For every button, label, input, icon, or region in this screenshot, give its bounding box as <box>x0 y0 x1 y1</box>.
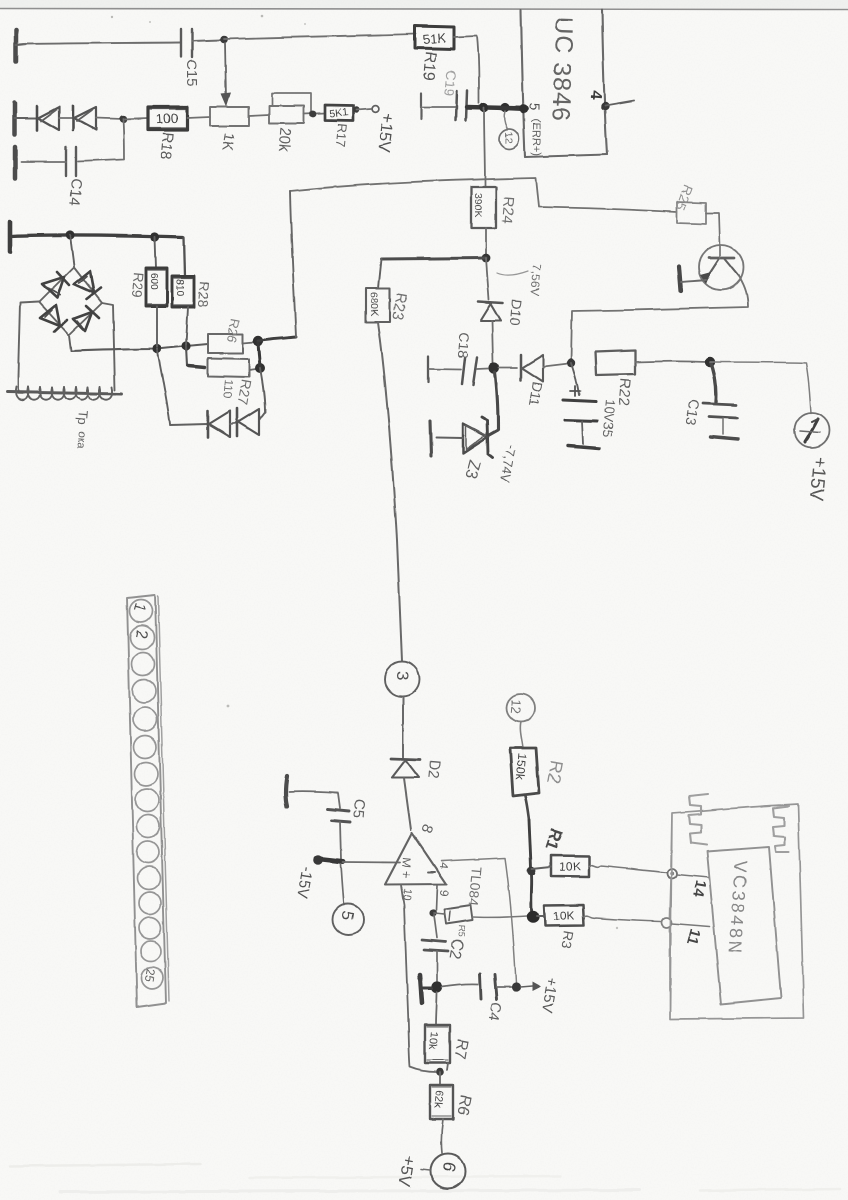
wire node to terminal 1 <box>710 362 811 413</box>
pencil specks top <box>111 15 618 930</box>
op-amp U1 triangle <box>385 833 447 885</box>
wire top bus to R29 <box>155 237 156 268</box>
transistor Q1 <box>699 245 744 290</box>
label 10V35 <box>600 399 618 438</box>
minus tick pin9 <box>428 871 435 873</box>
wire D2 to op-amp <box>404 778 411 830</box>
node junction R27 right <box>255 343 265 373</box>
node junction D10 top <box>482 254 491 263</box>
label C18 <box>455 332 473 359</box>
scanner top edge line <box>0 9 848 10</box>
value 62k in R6 <box>431 1090 445 1109</box>
svg-text:D2: D2 <box>424 759 443 780</box>
label C2 <box>445 937 465 960</box>
resistor R29 box 600 <box>146 268 167 306</box>
svg-text:62k: 62k <box>431 1090 445 1109</box>
pin label 11 <box>683 927 704 947</box>
wire R28 to lower bus <box>186 307 188 345</box>
svg-text:C18: C18 <box>455 332 473 359</box>
label UC 3846 <box>546 16 578 123</box>
pin label 8 <box>417 822 436 836</box>
wire 5K1 to +15V terminal <box>356 109 371 110</box>
circled pin 12 <box>499 129 519 149</box>
ground G3 (C14) <box>13 147 18 178</box>
diode D10 <box>478 302 503 321</box>
pin label 5 (ERR+) <box>527 103 543 156</box>
resistor R28 box 810 <box>172 276 194 307</box>
svg-text:C19: C19 <box>441 70 459 97</box>
node junction top <box>220 36 228 44</box>
svg-text:110: 110 <box>220 379 236 400</box>
svg-text:M: M <box>399 857 414 868</box>
label R26 <box>224 317 243 343</box>
transistor emitter terminal <box>679 266 706 291</box>
svg-text:5K1: 5K1 <box>329 106 349 120</box>
svg-text:5: 5 <box>527 103 543 111</box>
svg-text:3: 3 <box>393 671 412 680</box>
circled node 3 <box>385 662 420 697</box>
label +15V (top) <box>374 112 398 155</box>
svg-text:7,56V: 7,56V <box>527 264 544 296</box>
label C14 <box>66 178 85 207</box>
resistor R19 box 51K <box>415 26 454 49</box>
node junction R26 right <box>253 336 263 346</box>
node junction D11 right <box>567 359 575 367</box>
wire R1 to ring 14 <box>589 865 666 872</box>
circled node 5 <box>333 904 364 935</box>
svg-text:R24: R24 <box>498 196 517 225</box>
resistor R5 box <box>434 905 473 924</box>
trunk wire <box>529 820 532 916</box>
wire 1K to 20k <box>249 115 269 116</box>
IC VC3848N box <box>707 847 781 1004</box>
wire node to R6 <box>439 1072 441 1085</box>
svg-text:20k: 20k <box>275 127 294 153</box>
transformer winding core line <box>7 392 122 394</box>
bridge diode bottom-left <box>40 305 67 332</box>
wire +5V to node 6 <box>421 1169 430 1170</box>
terminal circled 1 (+15V) <box>795 413 830 448</box>
resistor R2 box 150k <box>510 748 539 796</box>
wire R22 to node <box>635 360 707 363</box>
label C13 <box>683 398 703 426</box>
connector X1 pin strip <box>127 595 169 1007</box>
label R25 <box>672 183 696 213</box>
svg-text:R29: R29 <box>129 272 147 299</box>
bridge diode top-right <box>74 271 101 299</box>
svg-text:R7: R7 <box>450 1037 470 1060</box>
wire ring to IC pin 14 <box>677 875 709 878</box>
svg-text:10K: 10K <box>559 859 581 874</box>
transformer winding loops <box>15 387 112 400</box>
diode D-a <box>37 106 59 130</box>
capacitor C4 <box>442 974 511 999</box>
wire top bus to R28 <box>184 237 185 276</box>
capacitor C15 <box>181 29 192 57</box>
pin label 4 (op-amp) <box>436 862 451 870</box>
label D10 <box>507 299 525 326</box>
wire node down to diodes <box>259 368 265 420</box>
wire D-b to node <box>96 118 122 119</box>
label 1K <box>218 131 238 152</box>
node junction diode row <box>119 115 127 123</box>
label R23 <box>388 291 410 321</box>
bridge diode bottom-right <box>73 306 99 331</box>
wire R5 to trunk <box>473 916 527 917</box>
svg-text:100: 100 <box>156 110 179 126</box>
wire C2node to R7 <box>436 992 437 1025</box>
diode D-b <box>73 106 96 130</box>
pin 10 wire down <box>401 885 436 1072</box>
arrow down to pot 1K <box>221 43 231 107</box>
label R24 <box>498 196 517 225</box>
wire C15 to node <box>192 40 221 41</box>
wire R18 to 1K <box>187 117 210 118</box>
bridge diamond <box>39 267 102 335</box>
label R29 <box>129 272 147 299</box>
label R6 <box>453 1093 473 1116</box>
resistor R18 box <box>148 107 187 130</box>
svg-text:C14: C14 <box>66 178 85 207</box>
wire pin4 to +15V rail <box>441 858 516 983</box>
wire bus to bridge top <box>70 235 74 266</box>
svg-text:C2: C2 <box>445 937 465 960</box>
ground G6 (C4) <box>420 975 432 1003</box>
capacitor C19 stub terminal <box>421 93 455 119</box>
svg-text:C15: C15 <box>183 59 200 87</box>
label Z3 <box>461 458 482 481</box>
wire bridge right to winding <box>102 303 115 390</box>
svg-text:R6: R6 <box>453 1093 473 1116</box>
label -7,74V <box>497 443 518 484</box>
label VC3848N <box>724 860 751 957</box>
value 51K <box>422 30 447 47</box>
ground G1 (top-left) <box>16 30 26 61</box>
wire 20k to 5K1 <box>304 111 325 118</box>
value 10K in R3 <box>553 909 575 924</box>
label R28 <box>195 281 213 308</box>
junction dots on bus <box>479 103 509 112</box>
capacitor C18 <box>428 356 488 385</box>
resistor R24 box 390K <box>471 187 496 228</box>
svg-text:1K: 1K <box>218 131 238 152</box>
wire bus to R24 <box>484 108 485 187</box>
svg-text:680K: 680K <box>368 292 380 317</box>
svg-text:600: 600 <box>148 273 159 290</box>
capacitor C13 <box>703 363 738 439</box>
label +15V (bottom) <box>538 976 561 1014</box>
label C15 <box>183 59 200 87</box>
label R5 <box>456 925 467 937</box>
resistor R7 box <box>425 1025 450 1063</box>
value 600 <box>148 273 159 290</box>
wire bridge bottom to lower bus <box>69 335 71 351</box>
label R22 <box>615 378 634 407</box>
svg-text:D10: D10 <box>507 299 525 326</box>
value 5K1 <box>329 106 349 120</box>
svg-text:12: 12 <box>508 699 524 715</box>
wire R26 to node <box>243 342 254 343</box>
wire node to R19 <box>224 34 416 39</box>
svg-text:R2: R2 <box>543 759 567 785</box>
pin label 9 <box>436 889 451 897</box>
svg-text:R22: R22 <box>615 378 634 407</box>
capacitor C2 branch <box>422 915 448 982</box>
node junction R3 <box>527 910 539 922</box>
wire node down to C14 <box>78 119 124 161</box>
note 7,56V <box>497 264 544 296</box>
wire R29 to lower bus <box>156 306 158 347</box>
riser wire up <box>290 191 296 337</box>
wire ground to C15 <box>24 43 180 45</box>
node junction +15V rail <box>511 982 520 991</box>
label R7 <box>450 1037 470 1060</box>
lower bus wire <box>71 344 208 351</box>
wire bridge left to winding <box>18 302 39 391</box>
capacitor C19 plates <box>456 91 467 120</box>
label C5 <box>349 799 368 820</box>
wire R25 to base <box>706 213 720 245</box>
svg-text:(ERR+): (ERR+) <box>530 119 542 156</box>
svg-text:+15V: +15V <box>805 456 830 503</box>
label R3 <box>558 929 577 950</box>
svg-text:Тр: Тр <box>75 410 91 426</box>
value 10K in R1 <box>559 859 581 874</box>
value 10k in R7 <box>426 1031 440 1050</box>
lead to circled 12 <box>504 111 507 128</box>
label +5V <box>395 1154 419 1188</box>
ring pin 11 <box>662 918 672 928</box>
thick link to riser <box>258 337 296 341</box>
wire R6 to node 6 <box>441 1119 443 1153</box>
node dots lower bus <box>152 341 190 353</box>
label TL084 <box>466 866 485 907</box>
svg-text:+: + <box>398 870 415 880</box>
circled pin 12 (R2) <box>507 694 535 722</box>
terminal -15V <box>313 855 343 865</box>
resistor R6 box 62k <box>430 1085 453 1119</box>
svg-text:R19: R19 <box>419 51 439 82</box>
svg-text:810: 810 <box>174 279 185 296</box>
label R19 <box>419 51 439 82</box>
resistor R23 box 680K <box>366 288 390 322</box>
faint bottom smudges <box>10 1164 840 1192</box>
trimmer 20k box <box>269 106 304 123</box>
value 150k <box>513 753 529 781</box>
wire C5 to -15V node <box>340 822 341 859</box>
svg-text:ока: ока <box>74 431 88 450</box>
label C4 <box>485 1000 505 1022</box>
value 100 in R18 <box>156 110 179 126</box>
label 20k <box>275 127 294 153</box>
wire lower bus to R27 <box>186 346 205 368</box>
capacitor C14 <box>21 147 76 176</box>
ground G5 (C5) <box>286 776 288 807</box>
label Tr toka <box>74 410 91 450</box>
IC UC3846 box <box>521 10 607 157</box>
label C19 <box>441 70 459 97</box>
svg-text:4: 4 <box>586 90 604 100</box>
node at 5K1 right <box>353 107 359 113</box>
wire node to R18 <box>123 118 148 119</box>
svg-text:R3: R3 <box>558 929 577 950</box>
wire D10 to node C18 <box>492 321 493 362</box>
wire pin9 down <box>436 885 437 910</box>
svg-text:10k: 10k <box>426 1031 440 1050</box>
waveform glyph left <box>689 794 708 845</box>
label R27 <box>235 378 255 406</box>
wire R27 to node <box>249 369 256 370</box>
node junction C18/D11 <box>488 362 499 373</box>
thick bus into pin 5 <box>467 107 527 109</box>
resistor R3 box <box>537 905 584 926</box>
collector wire to lower rail <box>571 276 748 361</box>
wire R3 to ring 11 <box>584 916 661 921</box>
node junction R7 bottom <box>436 1063 448 1076</box>
svg-text:C5: C5 <box>349 799 368 820</box>
wire -15V node to op-amp <box>343 861 400 864</box>
svg-text:R18: R18 <box>157 132 176 161</box>
resistor R1 box <box>532 856 589 877</box>
wire 12 to R2 <box>520 722 523 748</box>
pin label 14 <box>689 879 709 899</box>
label R17 <box>333 123 350 148</box>
svg-text:12: 12 <box>502 132 514 144</box>
value 390K <box>472 193 484 218</box>
node junction pin9 <box>429 909 436 916</box>
pin 4 node and stub <box>601 101 634 111</box>
bridge diode top-left <box>42 272 69 298</box>
svg-text:R5: R5 <box>456 925 467 937</box>
wire R2 to trunk <box>525 796 529 820</box>
node junction R1 <box>527 867 536 876</box>
20k wiper link <box>272 93 311 112</box>
wire node down to circle 5 <box>341 864 344 905</box>
svg-text:390K: 390K <box>472 193 484 218</box>
svg-text:150k: 150k <box>513 753 529 781</box>
thick wire node to R23 <box>378 258 486 288</box>
value 680K <box>368 292 380 317</box>
wire G5 to C5 <box>289 792 340 808</box>
svg-text:51K: 51K <box>422 30 447 47</box>
label D11 <box>526 380 546 407</box>
wire lower bus down to diodes <box>157 349 170 424</box>
wire D-a to D-b <box>59 117 73 119</box>
label R18 <box>157 132 176 161</box>
ring pin 14 <box>667 869 677 879</box>
terminal +15V (top) <box>372 106 379 113</box>
arrow +15V (bottom) <box>520 982 541 992</box>
wire to diode pair <box>170 424 208 425</box>
node junction C13 <box>705 357 715 367</box>
label 110 <box>220 379 236 400</box>
zener Z3 <box>436 417 493 458</box>
circled node 6 <box>431 1154 466 1189</box>
terminal bar Z3 <box>430 421 431 456</box>
wire R19 right and down <box>454 36 479 103</box>
diode D11 <box>499 355 568 382</box>
zener Z3 branch wire <box>489 372 498 435</box>
resistor R22 box <box>595 351 635 376</box>
label M+ <box>398 857 415 880</box>
svg-text:25: 25 <box>142 967 158 983</box>
resistor R17 box 5K1 <box>325 105 353 121</box>
long wire R23 to node 3 <box>378 322 402 661</box>
svg-text:C4: C4 <box>485 1000 505 1022</box>
electrolytic cap 10V35 <box>563 363 599 449</box>
diode D-d <box>237 409 259 437</box>
resistor R25 box <box>677 202 706 224</box>
resistor R27 box <box>208 358 249 377</box>
thick top bus <box>11 235 183 237</box>
wire R24 to node <box>485 228 487 255</box>
ground G4 (bridge bus) <box>8 222 13 252</box>
pin label 4 (UC3846) <box>586 90 604 100</box>
label -15V <box>294 865 316 899</box>
label R1 <box>541 826 566 853</box>
node dots top bus <box>65 230 159 241</box>
svg-text:UC 3846: UC 3846 <box>546 16 578 123</box>
diode D2 <box>391 759 420 778</box>
diode D-c <box>208 411 237 438</box>
value 810 <box>174 279 185 296</box>
label +15V (right) <box>805 456 830 503</box>
capacitor C5 <box>328 809 350 822</box>
outer frame box <box>670 804 804 1019</box>
svg-text:R17: R17 <box>333 123 350 148</box>
wire node to R25 path <box>290 178 677 212</box>
node junction C2 bottom <box>431 981 442 992</box>
pin label 10 <box>400 888 413 901</box>
waveform glyph right <box>773 806 789 852</box>
ground G2 (diode row) <box>15 103 37 134</box>
wire node to D10 <box>486 258 489 300</box>
wire ring to IC pin 11 <box>672 924 710 927</box>
svg-text:10K: 10K <box>553 909 575 924</box>
pin 5 thick wire <box>500 105 528 114</box>
potentiometer 1K box <box>210 107 249 126</box>
label D2 <box>424 759 443 780</box>
resistor R26 box <box>208 334 243 353</box>
svg-text:R28: R28 <box>195 281 213 308</box>
label R2 <box>543 759 567 785</box>
wire node 3 to D2 <box>402 697 404 757</box>
